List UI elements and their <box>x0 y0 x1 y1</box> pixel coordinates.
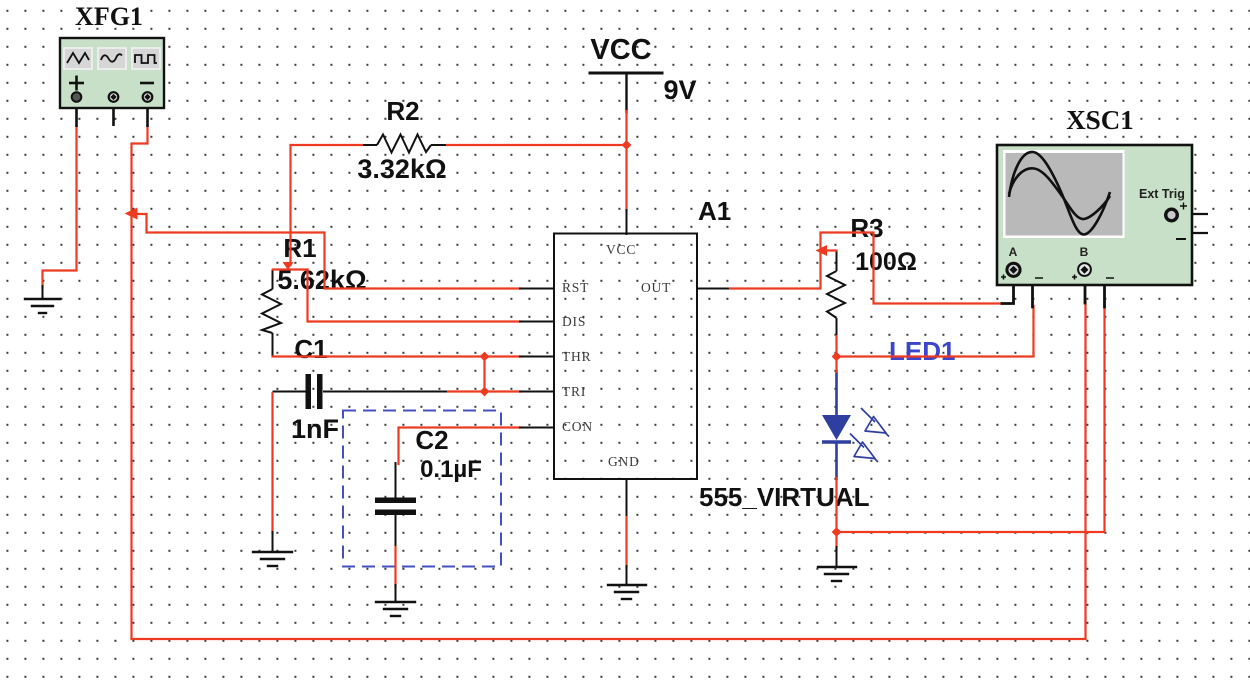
wire branch to 555 RST pin <box>132 214 522 289</box>
wire R2 left lead corner down to R1 top <box>291 145 363 265</box>
wire LED bottom red segment <box>835 478 837 549</box>
wire C2 bottom lead black <box>395 515 397 549</box>
wire C1 left lead down to ground <box>271 393 273 533</box>
svg-text:B: B <box>1080 245 1089 259</box>
wire black stub above ground GND5 <box>626 566 628 585</box>
wire 555 CON pin to C2 <box>399 428 522 465</box>
XSC1 waveform big <box>1009 152 1110 235</box>
svg-text:RST: RST <box>562 280 589 295</box>
XSC1 channel B terminal <box>1078 263 1091 276</box>
wire scope B minus black corner <box>1091 270 1105 307</box>
node junction LED bottom <box>832 527 842 537</box>
VCC bar symbol <box>590 72 662 75</box>
node junction R3 bottom <box>832 352 842 362</box>
svg-text:OUT: OUT <box>641 280 671 295</box>
XFG1 triangle wave icon <box>64 48 92 69</box>
svg-text:XFG1: XFG1 <box>75 2 143 31</box>
ground GND5 <box>608 585 646 599</box>
wire scope A minus black corner <box>1020 270 1033 307</box>
wire C2 top black lead <box>395 463 397 498</box>
XFG1 pin stubs <box>77 100 148 127</box>
wire XFG1 plus terminal to ground <box>43 126 77 288</box>
svg-text:VCC: VCC <box>606 242 636 257</box>
XFG1 terminal common <box>109 92 119 102</box>
resistor R3 <box>827 251 845 338</box>
wire OUT to R3 and scope A plus <box>730 233 1003 304</box>
wire XFG1 minus terminal down around bottom to scope B plus <box>132 126 1086 639</box>
XFG1 square wave icon <box>132 48 160 69</box>
selection dashed box around C2 <box>343 411 501 567</box>
node junction THR <box>480 352 490 362</box>
svg-text:9V: 9V <box>663 75 696 105</box>
XSC1 ext trig terminal <box>1166 209 1178 221</box>
svg-text:555_VIRTUAL: 555_VIRTUAL <box>699 482 870 512</box>
svg-text:A1: A1 <box>698 196 731 226</box>
svg-text:1nF: 1nF <box>291 414 339 444</box>
XFG1 minus mark <box>140 82 154 85</box>
wire R3 bottom node to scope A minus <box>837 306 1034 357</box>
wire THR to TRI vertical link <box>483 357 485 392</box>
ground GND1 <box>25 299 60 313</box>
capacitor C2 <box>375 498 416 516</box>
XFG1 plus mark <box>69 76 84 91</box>
wire black stub above ground GND2 <box>272 532 274 552</box>
junction arrow at R1 top <box>283 262 294 270</box>
wire TRI pin stub <box>520 391 554 393</box>
svg-text:3.32kΩ: 3.32kΩ <box>357 154 446 184</box>
wire RST pin stub <box>520 288 554 290</box>
LED LED1 <box>822 370 851 480</box>
wire THR pin stub <box>520 356 554 358</box>
wire OUT node short link to R3 top <box>821 249 837 251</box>
wire DIS pin stub <box>520 321 554 323</box>
svg-text:CON: CON <box>562 419 593 434</box>
svg-text:R3: R3 <box>850 213 883 243</box>
wire 555 VCC pin stub <box>626 210 628 234</box>
wire GND pin red segment <box>625 517 627 568</box>
wire CON pin stub <box>520 427 554 429</box>
wire R1 top node to 555 DIS pin <box>308 270 522 322</box>
wire LED bottom node to scope B minus <box>837 306 1105 532</box>
svg-text:Ext Trig: Ext Trig <box>1139 187 1185 201</box>
XFG1 terminal minus <box>143 92 153 102</box>
wire black stub above ground GND4 <box>836 547 838 567</box>
svg-text:LED1: LED1 <box>889 336 955 366</box>
function generator XFG1 <box>60 38 164 127</box>
wire VCC red stem down to chip <box>625 111 627 211</box>
wire R1 bottom to 555 THR pin <box>273 355 522 357</box>
svg-text:VCC: VCC <box>590 34 651 66</box>
XSC1 waveform small <box>1009 168 1110 219</box>
wire R2 right lead to VCC node <box>447 144 627 146</box>
resistor R2 <box>361 135 448 153</box>
oscilloscope XSC1 <box>997 145 1208 285</box>
wire R3 bottom red segment <box>835 336 837 372</box>
XSC1 channel A terminal <box>1007 263 1020 276</box>
LED light arrow 2 <box>850 434 878 463</box>
XSC1 screen <box>1003 150 1125 238</box>
svg-text:R2: R2 <box>386 96 419 126</box>
svg-text:GND: GND <box>608 454 640 469</box>
XSC1 body <box>997 145 1192 285</box>
junction arrow on XFG1 minus wire <box>125 208 138 220</box>
svg-text:100Ω: 100Ω <box>855 248 917 276</box>
resistor R1 <box>262 270 281 358</box>
svg-text:XSC1: XSC1 <box>1066 105 1134 135</box>
svg-text:TRI: TRI <box>562 384 586 399</box>
ground GND3 <box>376 602 415 616</box>
XSC1 channel B plus minus marks <box>1072 275 1114 280</box>
XFG1 body <box>60 38 164 108</box>
svg-text:C1: C1 <box>294 334 327 364</box>
wire R1 top node horizontal <box>273 268 308 270</box>
wire 555 GND pin stub <box>626 479 628 518</box>
node junction TRI <box>480 387 490 397</box>
svg-text:DIS: DIS <box>562 314 586 329</box>
junction arrow at OUT-R3 link <box>816 245 828 256</box>
XSC1 channel A plus minus marks <box>1001 275 1043 280</box>
XFG1 sine wave icon <box>98 48 126 69</box>
XSC1 ext trig stubs <box>1172 214 1208 233</box>
wire black stub above ground GND3 <box>395 585 397 602</box>
ground GND2 <box>253 552 292 566</box>
wire scope A plus black corner <box>1002 275 1014 304</box>
node junction VCC / R2 <box>622 140 632 150</box>
XSC1 ext trig plus mark <box>1180 203 1187 210</box>
wire VCC black stem <box>625 73 627 112</box>
wire C1 right lead red part to TRI pin <box>448 390 521 392</box>
wire C2 bottom lead red <box>394 547 396 587</box>
svg-text:C2: C2 <box>415 425 448 455</box>
ground GND4 <box>818 567 856 581</box>
svg-text:THR: THR <box>562 349 591 364</box>
IC A1 555 timer body <box>554 234 697 480</box>
svg-text:0.1µF: 0.1µF <box>420 456 482 483</box>
wire scope B plus black stub <box>1084 275 1087 303</box>
XSC1 ext trig minus mark <box>1176 238 1186 240</box>
wire 555 OUT pin stub <box>697 288 731 290</box>
svg-text:A: A <box>1009 245 1018 259</box>
capacitor C1 <box>273 374 450 409</box>
svg-text:R1: R1 <box>283 233 316 263</box>
XFG1 terminal plus <box>72 92 82 102</box>
wire black stub above ground GND1 <box>42 286 44 299</box>
LED light arrow 1 <box>861 408 889 437</box>
